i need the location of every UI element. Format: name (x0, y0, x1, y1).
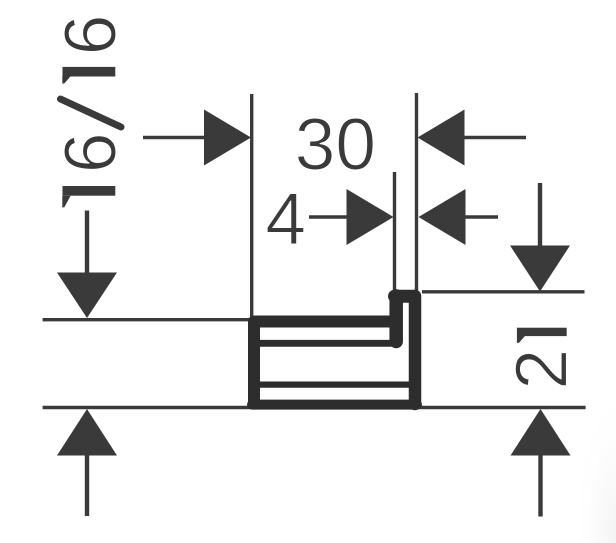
stem of lower-right up arrow (538, 453, 542, 517)
extension line right of 30/4 dimensions (x=416.5) (415, 93, 418, 291)
horizontal reference line upper left (top of profile) (43, 318, 250, 321)
dimension text 16/16 (rotated, reads bottom-up), composed per glyph (50, 15, 131, 208)
extension line left of 30 dimension (x=251.7) (250, 94, 253, 317)
glyph 1 flag (517, 336, 525, 343)
dimension line 30 left segment (143, 136, 205, 139)
svg-text:6: 6 (50, 15, 131, 56)
horizontal reference line bottom (full width) (43, 406, 586, 409)
dimension line 30 right segment (464, 136, 526, 139)
arrowhead 4 right (points left) (419, 189, 466, 245)
glyph slash (61, 99, 122, 127)
arrowhead 4 left (points right) (347, 189, 394, 245)
horizontal reference line right (top of hook) (422, 290, 585, 293)
arrowhead lower-right (points up to line y=407.5) (511, 409, 571, 456)
glyph 1 (bottom) bar (63, 186, 116, 196)
arrowhead upper-right (points down to line y=291.8) (510, 246, 570, 292)
svg-text:30: 30 (295, 105, 376, 186)
arrowhead 30 right (points left) (418, 110, 465, 166)
extension line left of 4 dimension (x=394.5) (393, 172, 396, 291)
profile left wall and top wall (254, 322, 398, 405)
arrowhead 30 left (points right) (204, 110, 251, 166)
svg-text:4: 4 (265, 179, 306, 260)
profile hook riser finger (389, 296, 403, 342)
glyph 1 (second from top) bar (63, 67, 116, 77)
profile cross-section (thick outline) (252, 296, 417, 405)
dimension text 21 (rotated, reads bottom-up), composed per glyph (502, 328, 583, 390)
profile right wall (409, 296, 422, 404)
stem of lower-left up arrow (85, 453, 89, 516)
svg-text:6: 6 (50, 132, 131, 173)
profile hook cap (top right) (395, 290, 415, 303)
dimension line 4 right segment (464, 215, 498, 218)
glyph 1 (second from top) flag (62, 76, 70, 83)
profile inner top line (258, 340, 396, 347)
profile inner bottom line (258, 382, 412, 388)
arrowhead lower-left (points up to line y=407.5) (57, 409, 117, 456)
glyph 1 (bottom) flag (62, 196, 70, 208)
svg-text:2: 2 (502, 349, 583, 390)
stem of upper-left down arrow (16/16 dimension) (85, 211, 89, 277)
dimension line 4 left segment (309, 215, 347, 218)
stem of upper-right down arrow (21 dimension) (538, 183, 542, 248)
arrowhead upper-left (points down to line y=319.7) (57, 273, 117, 319)
profile bottom wall (252, 400, 417, 410)
glyph 1 bar (517, 328, 567, 336)
